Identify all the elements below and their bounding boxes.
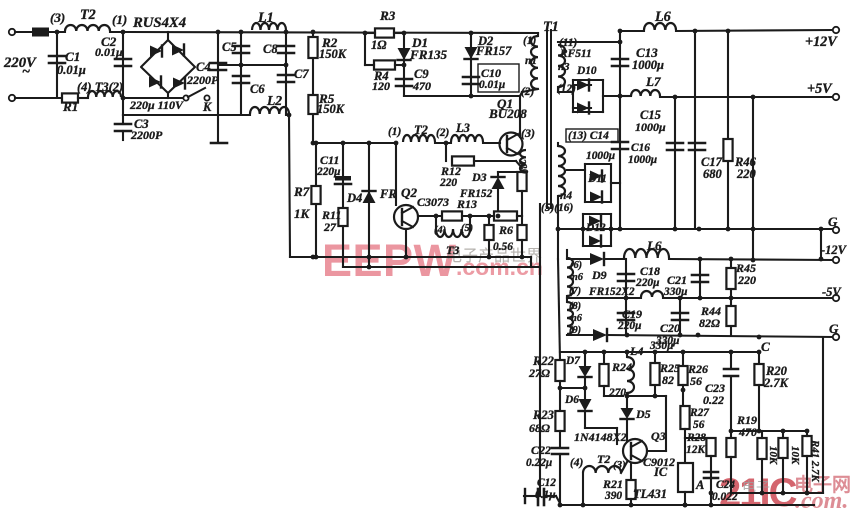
svg-text:0.01μ: 0.01μ: [57, 63, 86, 77]
svg-text:T1: T1: [543, 19, 559, 35]
svg-text:2200P: 2200P: [186, 73, 219, 87]
svg-text:150K: 150K: [317, 102, 346, 116]
svg-text:D4: D4: [346, 191, 362, 205]
svg-text:D11: D11: [587, 173, 607, 185]
svg-text:R23: R23: [532, 408, 554, 422]
svg-text:0.01μ: 0.01μ: [479, 79, 505, 91]
svg-text:0.22: 0.22: [703, 393, 724, 407]
svg-text:L6: L6: [646, 238, 662, 253]
svg-text:1000μ: 1000μ: [632, 58, 664, 72]
svg-text:D3: D3: [471, 170, 487, 184]
svg-text:+12V: +12V: [805, 34, 838, 50]
svg-text:C1: C1: [65, 49, 80, 64]
svg-text:Q3: Q3: [651, 429, 666, 443]
svg-text:T2: T2: [80, 7, 96, 23]
svg-text:A: A: [695, 478, 704, 492]
svg-text:2200P: 2200P: [130, 128, 163, 142]
svg-text:-5V: -5V: [822, 285, 842, 299]
svg-text:T3: T3: [446, 243, 459, 257]
svg-text:(12): (12): [557, 83, 576, 95]
svg-text:C18: C18: [640, 264, 660, 278]
svg-text:270: 270: [608, 387, 626, 399]
svg-text:n6: n6: [572, 272, 584, 283]
svg-text:C19: C19: [622, 307, 642, 321]
svg-text:L3: L3: [455, 121, 470, 135]
svg-text:220: 220: [439, 177, 457, 189]
svg-text:150K: 150K: [319, 47, 348, 61]
svg-text:BU208: BU208: [488, 106, 527, 121]
svg-text:220μ: 220μ: [635, 277, 659, 289]
svg-text:n1: n1: [525, 55, 537, 67]
svg-text:RUS4X4: RUS4X4: [132, 15, 186, 31]
svg-text:(2): (2): [521, 86, 534, 98]
svg-text:D12: D12: [585, 222, 606, 234]
svg-text:330μ: 330μ: [663, 286, 687, 298]
svg-text:R7: R7: [293, 184, 310, 199]
svg-text:R13: R13: [456, 197, 477, 211]
svg-text:C20: C20: [660, 321, 680, 335]
svg-text:390: 390: [604, 490, 622, 502]
svg-text:FR135: FR135: [409, 47, 448, 62]
svg-text:(4) T3(2): (4) T3(2): [77, 80, 123, 94]
svg-text:D5: D5: [635, 407, 651, 421]
svg-text:D9: D9: [591, 268, 607, 282]
svg-text:R12: R12: [440, 164, 461, 178]
svg-text:(1): (1): [112, 12, 127, 27]
svg-text:C7: C7: [294, 67, 309, 81]
svg-text:10K: 10K: [789, 446, 801, 465]
svg-text:2.7K: 2.7K: [763, 376, 790, 390]
svg-text:(5)(16): (5)(16): [541, 202, 573, 214]
svg-text:n3: n3: [558, 61, 570, 73]
svg-text:L6: L6: [654, 9, 672, 25]
svg-text:(9): (9): [569, 325, 581, 336]
svg-text:82Ω: 82Ω: [699, 316, 720, 330]
svg-text:D6: D6: [564, 394, 579, 406]
svg-text:RF511: RF511: [559, 48, 592, 60]
svg-text:C24: C24: [716, 479, 735, 491]
svg-text:TL431: TL431: [633, 487, 667, 501]
svg-text:C6: C6: [250, 82, 265, 96]
svg-text:T2: T2: [414, 123, 428, 137]
svg-text:(3): (3): [50, 10, 65, 25]
svg-text:C21: C21: [667, 273, 687, 287]
svg-text:220V: 220V: [3, 55, 37, 71]
svg-text:Q2: Q2: [401, 185, 417, 200]
svg-text:n4: n4: [560, 190, 572, 202]
svg-text:82: 82: [662, 373, 674, 387]
svg-text:(1): (1): [523, 35, 536, 47]
svg-text:+5V: +5V: [807, 81, 833, 97]
svg-text:220: 220: [736, 167, 757, 181]
svg-text:C12: C12: [537, 477, 556, 489]
svg-text:(7): (7): [569, 286, 581, 297]
svg-text:D7: D7: [565, 355, 581, 367]
svg-text:FR157: FR157: [475, 44, 512, 58]
svg-text:120: 120: [372, 79, 390, 93]
svg-text:R6: R6: [498, 223, 513, 237]
svg-text:R24: R24: [611, 360, 632, 374]
svg-text:(3): (3): [521, 126, 535, 140]
svg-text:330μ: 330μ: [649, 340, 673, 352]
svg-text:68Ω: 68Ω: [529, 421, 550, 435]
svg-text:(2): (2): [436, 127, 449, 139]
svg-text:1000μ: 1000μ: [628, 154, 657, 166]
svg-text:C3073: C3073: [417, 195, 449, 209]
svg-text:~: ~: [22, 64, 30, 80]
svg-text:220μ: 220μ: [316, 166, 340, 178]
svg-text:0.022: 0.022: [712, 491, 738, 503]
svg-text:R21: R21: [602, 477, 623, 491]
svg-text:12K: 12K: [686, 444, 706, 456]
svg-text:L4: L4: [629, 344, 643, 358]
svg-text:C22: C22: [531, 443, 551, 457]
svg-text:(13) C14: (13) C14: [568, 130, 609, 142]
svg-text:(3): (3): [613, 459, 626, 471]
svg-text:220: 220: [737, 273, 756, 287]
svg-text:1000μ: 1000μ: [635, 120, 666, 134]
svg-text:IC: IC: [653, 465, 668, 479]
svg-text:.com.: .com.: [795, 488, 848, 514]
svg-text:0.56: 0.56: [493, 241, 513, 253]
svg-text:R1: R1: [62, 99, 78, 114]
svg-text:1N4148X2: 1N4148X2: [574, 430, 627, 444]
svg-text:C10: C10: [481, 66, 501, 80]
svg-text:L1: L1: [257, 10, 274, 26]
svg-text:470: 470: [412, 79, 431, 93]
svg-text:0.1μ: 0.1μ: [535, 489, 556, 501]
svg-text:1K: 1K: [294, 206, 311, 221]
svg-text:D10: D10: [576, 65, 597, 77]
svg-text:(1): (1): [388, 126, 401, 138]
svg-text:680: 680: [703, 167, 723, 181]
svg-text:R41 2.7K: R41 2.7K: [809, 439, 821, 482]
svg-text:R27: R27: [689, 407, 710, 419]
svg-text:27Ω: 27Ω: [528, 366, 550, 380]
svg-text:C: C: [761, 339, 770, 354]
svg-text:-12V: -12V: [821, 243, 848, 257]
svg-text:R28: R28: [686, 432, 706, 444]
svg-text:R3: R3: [379, 8, 396, 23]
svg-text:(6): (6): [570, 260, 582, 271]
svg-text:C11: C11: [320, 153, 339, 167]
svg-text:56: 56: [693, 419, 705, 431]
svg-text:0.01μ: 0.01μ: [95, 45, 123, 59]
svg-text:220μ 110V: 220μ 110V: [129, 98, 184, 112]
svg-text:FR: FR: [379, 187, 397, 201]
svg-text:C16: C16: [631, 142, 650, 154]
svg-text:(4): (4): [434, 225, 446, 236]
svg-text:470: 470: [738, 425, 757, 439]
svg-text:G: G: [829, 321, 839, 336]
svg-text:L7: L7: [645, 74, 661, 89]
svg-text:56: 56: [690, 374, 702, 388]
svg-text:27: 27: [323, 220, 337, 234]
svg-text:FR152X2: FR152X2: [588, 286, 635, 298]
svg-text:0.22μ: 0.22μ: [526, 457, 552, 469]
svg-text:(8): (8): [569, 301, 581, 312]
svg-text:1Ω: 1Ω: [371, 38, 387, 52]
svg-text:G: G: [828, 214, 838, 229]
svg-text:C5: C5: [222, 40, 237, 54]
svg-text:1000μ: 1000μ: [586, 150, 615, 162]
svg-text:C4: C4: [196, 60, 211, 74]
svg-text:n6: n6: [571, 313, 583, 324]
svg-text:T2: T2: [597, 452, 610, 466]
svg-text:220μ: 220μ: [617, 320, 641, 332]
svg-text:(5): (5): [461, 223, 473, 234]
svg-text:C8: C8: [263, 42, 278, 56]
svg-text:10K: 10K: [767, 446, 779, 465]
svg-text:(4): (4): [570, 457, 583, 469]
svg-text:L2: L2: [266, 93, 282, 108]
